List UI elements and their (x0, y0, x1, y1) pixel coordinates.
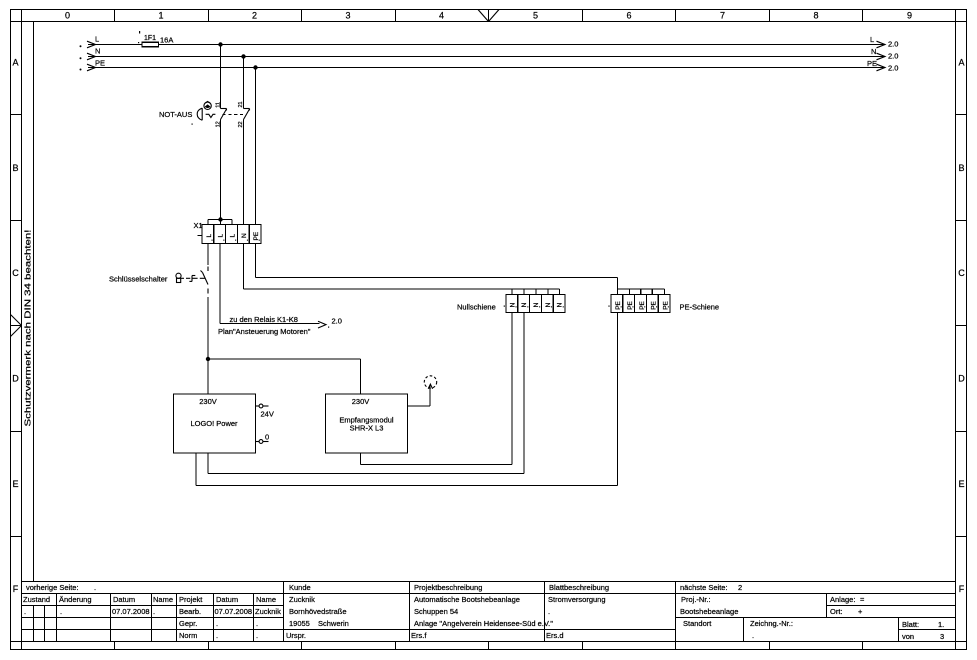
N feed wire to Nullschiene (244, 288, 560, 290)
svg-text:230V: 230V (352, 397, 370, 406)
svg-text:Name: Name (153, 595, 173, 604)
svg-text:.: . (216, 631, 218, 640)
svg-text:N: N (871, 47, 876, 56)
svg-text:230V: 230V (199, 397, 217, 406)
svg-text:A: A (958, 58, 964, 68)
svg-text:Ers.f: Ers.f (411, 631, 427, 640)
svg-text:von: von (902, 632, 914, 641)
svg-text:Proj.-Nr.:: Proj.-Nr.: (681, 595, 711, 604)
svg-text:L: L (218, 234, 225, 238)
svg-text:Name: Name (256, 595, 276, 604)
svg-text:E: E (12, 479, 18, 489)
svg-text:LOGO! Power: LOGO! Power (190, 419, 238, 428)
wire X1:5 (PE) down (255, 244, 257, 278)
svg-text:N: N (509, 303, 516, 308)
source arrow L (87, 41, 96, 48)
svg-text:F: F (959, 584, 965, 594)
svg-text:9: 9 (907, 11, 912, 21)
wire L contact to X1 bridge (220, 120, 222, 220)
Nullschiene labels (509, 303, 563, 308)
svg-text:2.0: 2.0 (332, 317, 342, 326)
antenna wire (408, 385, 431, 406)
svg-text:Projektbeschreibung: Projektbeschreibung (414, 583, 482, 592)
svg-text:PE: PE (651, 300, 658, 309)
svg-text:PE-Schiene: PE-Schiene (680, 303, 720, 312)
wire X1:4 (N) down (243, 244, 245, 290)
svg-text:PE: PE (615, 300, 622, 309)
svg-text:1: 1 (158, 11, 163, 21)
svg-text:24V: 24V (261, 410, 274, 419)
wire N down to NOT-AUS contact (243, 57, 245, 109)
svg-text:Plan"Ansteuerung Motoren": Plan"Ansteuerung Motoren" (218, 327, 311, 336)
svg-text:nächste Seite:: nächste Seite: (680, 583, 728, 592)
svg-text:vorherige Seite:: vorherige Seite: (26, 583, 79, 592)
svg-text:PE: PE (253, 231, 260, 240)
svg-text:Zustand: Zustand (23, 595, 50, 604)
svg-text:1.: 1. (938, 620, 944, 629)
junction node (206, 357, 210, 361)
svg-text:Stromversorgung: Stromversorgung (548, 595, 606, 604)
junction L (218, 42, 222, 46)
svg-text:D: D (958, 374, 965, 384)
svg-text:F: F (13, 584, 19, 594)
svg-text:Urspr.: Urspr. (286, 631, 306, 640)
svg-text:Datum: Datum (113, 595, 135, 604)
svg-text:Schuppen 54: Schuppen 54 (414, 607, 458, 616)
svg-text:Blattbeschreibung: Blattbeschreibung (549, 583, 609, 592)
svg-text:.: . (752, 631, 754, 640)
svg-text:Automatische Bootshebeanlage: Automatische Bootshebeanlage (414, 595, 520, 604)
svg-text:16A: 16A (160, 36, 173, 45)
svg-text:PE: PE (627, 300, 634, 309)
arrow L right to 2.0 (877, 41, 886, 48)
svg-text:SHR-X L3: SHR-X L3 (350, 424, 384, 433)
svg-text:Kunde: Kunde (289, 583, 311, 592)
junction on X1 bridge (218, 217, 222, 221)
svg-text:L: L (870, 35, 874, 44)
svg-text:2: 2 (738, 583, 742, 592)
svg-text:0: 0 (265, 433, 269, 442)
NOT-AUS mushroom actuator (197, 101, 215, 120)
svg-text:=: = (860, 595, 865, 604)
source arrow N (87, 53, 96, 60)
power supply U1 LOGO! Power (174, 394, 256, 453)
svg-text:Anlage "Angelverein Heidensee-: Anlage "Angelverein Heidensee-Süd e.V." (414, 619, 553, 628)
key switch contact on wire 1 (201, 267, 209, 294)
svg-text:.: . (216, 619, 218, 628)
terminal 24V (256, 404, 269, 408)
fuse F1 (142, 42, 159, 47)
wire 1 resumes to junction (207, 297, 209, 394)
svg-text:2: 2 (252, 11, 257, 21)
source arrow PE (87, 64, 96, 71)
bus line PE (88, 67, 884, 69)
terminal 0 (256, 440, 269, 444)
svg-text:Ort:: Ort: (830, 607, 843, 616)
antenna symbol (424, 376, 436, 389)
svg-text:N: N (241, 233, 248, 238)
svg-text:L: L (206, 234, 213, 238)
svg-text:Bootshebeanlage: Bootshebeanlage (680, 607, 738, 616)
svg-text:Schwerin: Schwerin (318, 619, 349, 628)
svg-text:C: C (958, 268, 965, 278)
svg-text:N: N (521, 303, 528, 308)
wire Empfangsmodul N out (361, 313, 513, 465)
svg-text:Bearb.: Bearb. (179, 607, 201, 616)
wire LOGO PE out (196, 313, 618, 486)
svg-text:Blatt:: Blatt: (902, 620, 919, 629)
svg-text:N: N (95, 47, 100, 56)
node dot N left (80, 57, 82, 59)
node dot L left (80, 45, 82, 47)
wire to Empfangsmodul (208, 359, 361, 394)
svg-text:0: 0 (65, 11, 70, 21)
svg-text:.: . (256, 619, 258, 628)
svg-text:N: N (533, 303, 540, 308)
svg-text:X1: X1 (194, 221, 203, 230)
svg-text:B: B (958, 163, 964, 173)
svg-text:Standort: Standort (683, 619, 712, 628)
svg-text:D: D (12, 374, 19, 384)
svg-text:.: . (24, 607, 26, 616)
svg-text:3: 3 (940, 632, 944, 641)
X1 terminal labels (206, 231, 260, 240)
svg-text:07.07.2008: 07.07.2008 (215, 607, 253, 616)
wire L down to NOT-AUS contact (220, 45, 222, 109)
bus line N (88, 56, 884, 58)
X1 bridge over terminals 1-3 (208, 220, 232, 226)
svg-text:PE: PE (867, 59, 877, 68)
svg-text:6: 6 (626, 11, 631, 21)
svg-text:11: 11 (216, 102, 222, 108)
svg-text:Norm: Norm (179, 631, 197, 640)
node dot PE left (80, 69, 82, 71)
svg-text:PE: PE (662, 300, 669, 309)
svg-text:Gepr.: Gepr. (179, 619, 197, 628)
key switch actuator link (186, 276, 205, 282)
bus line L (88, 44, 884, 46)
svg-text:B: B (12, 163, 18, 173)
svg-text:Ers.d: Ers.d (546, 631, 564, 640)
svg-text:Datum: Datum (216, 595, 238, 604)
wire PE down to X1 (255, 68, 257, 226)
svg-text:1F1: 1F1 (144, 35, 156, 42)
arrow N right to 2.0 (877, 53, 886, 60)
svg-text:N: N (557, 303, 564, 308)
PE-Schiene bridge (618, 289, 665, 295)
arrow PE right to 2.0 (877, 64, 886, 71)
svg-text:07.07.2008: 07.07.2008 (112, 607, 150, 616)
svg-text:.: . (94, 583, 96, 592)
wire X1:1 down (207, 244, 209, 266)
mechanical link dashes (223, 114, 246, 116)
svg-text:N: N (545, 303, 552, 308)
svg-text:Anlage:: Anlage: (830, 595, 855, 604)
junction N (241, 54, 245, 58)
svg-text:+: + (858, 607, 863, 616)
arrow to 2.0 (318, 321, 326, 328)
Nullschiene bridge (512, 289, 560, 295)
svg-text:PE: PE (95, 59, 105, 68)
svg-text:.: . (256, 631, 258, 640)
svg-text:7: 7 (720, 11, 725, 21)
NOT-AUS contact 1 (L) (221, 109, 227, 120)
svg-text:Nullschiene: Nullschiene (457, 303, 496, 312)
svg-text:.: . (60, 607, 62, 616)
receiver module U2 Empfangsmodul (326, 394, 408, 453)
PE feed wire to PE-Schiene (256, 278, 618, 290)
svg-text:3: 3 (345, 11, 350, 21)
top centre fold marker (478, 10, 499, 22)
svg-text:NOT-AUS: NOT-AUS (159, 110, 192, 119)
svg-text:2.0: 2.0 (888, 40, 898, 49)
svg-text:Zucknik: Zucknik (289, 595, 315, 604)
key symbol (176, 273, 184, 282)
wire X1:2 down (219, 244, 221, 324)
svg-text:5: 5 (533, 11, 538, 21)
svg-text:Bornhövedstraße: Bornhövedstraße (289, 607, 347, 616)
wire LOGO N out (208, 313, 524, 474)
stray tick marks near fuse (139, 31, 140, 34)
svg-text:.: . (153, 607, 155, 616)
svg-text:2.0: 2.0 (888, 64, 898, 73)
svg-text:Schutzvermerk nach DIN 34 beac: Schutzvermerk nach DIN 34 beachten! (24, 230, 33, 427)
dot below mushroom (192, 124, 193, 125)
svg-text:19055: 19055 (289, 619, 310, 628)
svg-text:PE: PE (639, 300, 646, 309)
svg-text:Projekt: Projekt (179, 595, 203, 604)
svg-text:4: 4 (439, 11, 444, 21)
svg-text:Zucknik: Zucknik (255, 607, 281, 616)
svg-text:A: A (12, 58, 18, 68)
svg-text:C: C (12, 268, 19, 278)
svg-text:L: L (95, 35, 99, 44)
PE-Schiene labels (615, 300, 669, 309)
left centre fold marker (11, 315, 22, 337)
svg-text:zu den Relais K1-K8: zu den Relais K1-K8 (230, 315, 298, 324)
svg-text:L: L (229, 234, 236, 238)
svg-text:2.0: 2.0 (888, 52, 898, 61)
wire N contact to X1 (243, 120, 245, 226)
svg-text:21: 21 (238, 101, 244, 107)
branch zu den Relais (220, 323, 320, 325)
NOT-AUS contact 2 (N) (244, 109, 250, 120)
junction PE (253, 65, 257, 69)
svg-text:8: 8 (813, 11, 818, 21)
svg-text:Schlüsselschalter: Schlüsselschalter (109, 275, 168, 284)
svg-text:Änderung: Änderung (59, 595, 92, 604)
svg-text:Zeichng.-Nr.:: Zeichng.-Nr.: (750, 619, 793, 628)
svg-text:.: . (548, 607, 550, 616)
svg-text:E: E (958, 479, 964, 489)
